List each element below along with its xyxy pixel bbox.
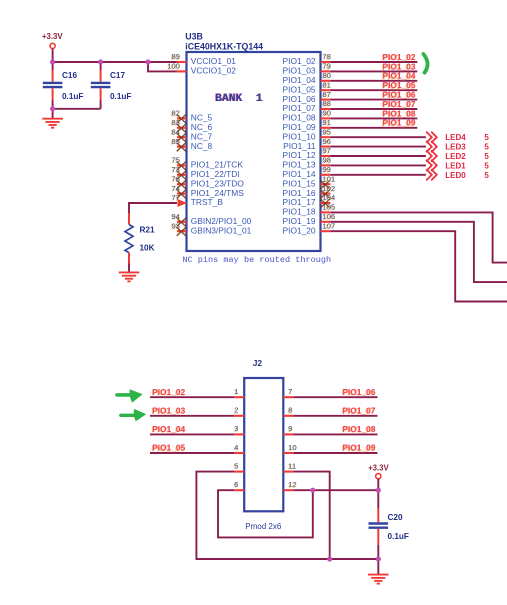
svg-text:3: 3: [234, 424, 238, 433]
ground (under C16): [42, 109, 63, 128]
svg-text:78: 78: [323, 52, 331, 61]
pin 91 PIO1_09: [283, 118, 331, 132]
svg-text:5: 5: [484, 171, 489, 180]
pin 98 PIO1_13: [283, 156, 331, 170]
pin 6 J2: [233, 480, 244, 490]
pin 89 VCCIO1_01: [171, 52, 237, 66]
svg-text:2: 2: [234, 406, 238, 415]
svg-text:8: 8: [288, 406, 292, 415]
svg-text:5: 5: [484, 143, 489, 152]
pin 9 J2: [283, 424, 293, 434]
svg-text:0.1uF: 0.1uF: [388, 532, 409, 541]
svg-text:87: 87: [323, 90, 331, 99]
pin 99 PIO1_14: [283, 165, 331, 179]
label BANK 1: [214, 93, 263, 105]
svg-text:74: 74: [172, 184, 180, 193]
wire TRST_B to R21: [129, 203, 177, 213]
svg-text:LED1: LED1: [445, 161, 466, 170]
pin 95 PIO1_10: [283, 127, 331, 141]
wire net PIO1_04 (J2 pin 3): [150, 433, 234, 435]
net label PIO1_02: [382, 52, 416, 63]
connector J2 body: [244, 378, 283, 511]
pin 85 NC_8: [171, 137, 213, 152]
svg-text:104: 104: [323, 193, 336, 202]
wire net PIO1_03 (J2 pin 2): [150, 415, 234, 417]
svg-text:PIO1_09: PIO1_09: [383, 118, 416, 128]
svg-text:101: 101: [323, 174, 336, 183]
svg-text:83: 83: [172, 118, 180, 127]
net label PIO1_07: [342, 405, 376, 416]
svg-text:80: 80: [323, 71, 331, 80]
wire net PIO1_08: [330, 117, 417, 119]
off-page connector LED3: [426, 141, 437, 152]
pin 101 PIO1_15: [283, 174, 336, 189]
net label PIO1_06: [342, 387, 376, 398]
svg-text:102: 102: [323, 184, 336, 193]
svg-text:VCCIO1_02: VCCIO1_02: [191, 66, 236, 76]
svg-text:5: 5: [234, 461, 238, 470]
svg-text:PIO1_07: PIO1_07: [342, 405, 375, 415]
pin 12 J2: [283, 480, 296, 490]
svg-text:85: 85: [172, 137, 180, 146]
wire to LED3: [330, 146, 426, 148]
svg-text:TRST_B: TRST_B: [191, 197, 224, 207]
pin 3 J2: [233, 424, 244, 434]
pin 83 NC_6: [171, 118, 213, 133]
net label PIO1_09: [382, 118, 416, 129]
net label PIO1_04: [151, 424, 185, 435]
wire to LED0: [330, 174, 426, 176]
svg-text:NC_8: NC_8: [191, 141, 213, 151]
svg-text:88: 88: [323, 99, 331, 108]
svg-text:iCE40HX1K-TQ144: iCE40HX1K-TQ144: [185, 41, 263, 51]
svg-text:LED0: LED0: [445, 171, 466, 180]
wire net PIO1_02: [330, 61, 417, 63]
net label LED3: [445, 143, 489, 152]
node junction C20 bottom: [376, 556, 381, 561]
net label LED1: [445, 161, 489, 170]
pin 7 J2: [283, 387, 293, 397]
wire net PIO1_09 (J2 pin 10): [293, 452, 377, 454]
pin 105 PIO1_18: [283, 203, 336, 217]
svg-text:+3.3V: +3.3V: [368, 463, 389, 472]
wire to LED2: [330, 155, 426, 157]
pin 104 PIO1_17: [283, 193, 336, 208]
wire net PIO1_06: [330, 99, 417, 101]
net label PIO1_09: [342, 443, 376, 454]
svg-text:C16: C16: [62, 71, 77, 80]
pin 106 PIO1_19: [283, 212, 336, 226]
capacitor C16: [43, 62, 84, 109]
pin 73 PIO1_22/TDI: [171, 165, 240, 180]
net label LED4: [445, 133, 489, 142]
pin 4 J2: [233, 443, 244, 453]
net label PIO1_08: [342, 424, 376, 435]
pin 76 PIO1_23/TDO: [171, 174, 245, 189]
pin 74 PIO1_24/TMS: [171, 184, 245, 199]
wire net PIO1_03: [330, 70, 417, 72]
capacitor C20: [369, 490, 409, 559]
svg-text:J2: J2: [253, 358, 263, 368]
off-page connector LED2: [426, 150, 437, 161]
svg-text:PIO1_08: PIO1_08: [342, 424, 375, 434]
wire J2 pin6 power loop: [218, 490, 313, 537]
wire to LED4: [330, 136, 426, 138]
wire PIO1_19 to edge: [330, 222, 507, 282]
svg-text:84: 84: [172, 127, 180, 136]
svg-text:C17: C17: [110, 71, 125, 80]
svg-text:94: 94: [172, 212, 180, 221]
svg-text:11: 11: [288, 461, 296, 470]
pin 90 PIO1_08: [283, 109, 331, 123]
net label PIO1_05: [382, 80, 416, 91]
pin 77 TRST_B: [171, 193, 224, 207]
net label PIO1_06: [382, 90, 416, 101]
svg-text:77: 77: [172, 193, 180, 202]
svg-text:93: 93: [172, 221, 180, 230]
pin 100 VCCIO1_02: [166, 62, 236, 76]
pin 96 PIO1_11: [283, 137, 331, 151]
svg-text:96: 96: [323, 137, 331, 146]
net label PIO1_02: [151, 387, 185, 398]
net label LED0: [445, 171, 489, 180]
wire J2 pin12 to +3.3V: [293, 489, 378, 491]
wire net PIO1_05: [330, 89, 417, 91]
svg-text:0.1uF: 0.1uF: [62, 92, 83, 101]
wire net PIO1_04: [330, 80, 417, 82]
svg-text:C20: C20: [388, 513, 403, 522]
pin 2 J2: [233, 406, 244, 416]
svg-text:BANK 1: BANK 1: [215, 93, 263, 105]
pin 1 J2: [233, 387, 244, 397]
wire net PIO1_06 (J2 pin 7): [293, 396, 377, 398]
svg-text:9: 9: [288, 424, 292, 433]
svg-text:Pmod 2x6: Pmod 2x6: [245, 522, 282, 531]
pin 84 NC_7: [171, 127, 213, 142]
svg-text:82: 82: [172, 109, 180, 118]
off-page connector LED1: [426, 160, 437, 171]
label iCE40HX1K-TQ144: [185, 41, 263, 51]
svg-text:10: 10: [288, 443, 296, 452]
annotation green arrow 2: [121, 409, 146, 421]
pin 5 J2: [233, 461, 244, 471]
pin 78 PIO1_02: [283, 52, 331, 66]
ground (under C20): [368, 559, 389, 584]
wire net PIO1_05 (J2 pin 4): [150, 452, 234, 454]
pin 8 J2: [283, 406, 293, 416]
svg-text:90: 90: [323, 109, 331, 118]
IC U3B body: [187, 52, 321, 251]
pin 80 PIO1_04: [283, 71, 331, 85]
pin 87 PIO1_06: [283, 90, 331, 104]
pin 11 J2: [283, 461, 296, 471]
svg-text:76: 76: [172, 174, 180, 183]
node junction rail-C16: [50, 59, 55, 64]
net label PIO1_03: [151, 405, 185, 416]
label U3B: [185, 31, 203, 41]
pin 97 PIO1_12: [283, 146, 331, 160]
pin 75 PIO1_21/TCK: [171, 156, 244, 171]
svg-text:81: 81: [323, 80, 331, 89]
resistor R21: [125, 213, 155, 272]
pin 81 PIO1_05: [283, 80, 331, 94]
pin 79 PIO1_03: [283, 62, 331, 76]
wire +3.3V rail to VCCIO1_01: [53, 61, 177, 63]
wire drop to VCCIO1_02: [148, 62, 177, 71]
svg-text:100: 100: [167, 62, 180, 71]
svg-text:79: 79: [323, 62, 331, 71]
svg-text:107: 107: [323, 221, 336, 230]
svg-text:4: 4: [234, 443, 238, 452]
net label PIO1_08: [382, 108, 416, 119]
annotation green parenthesis: [423, 54, 427, 73]
net label PIO1_03: [382, 61, 416, 72]
wire net PIO1_08 (J2 pin 9): [293, 433, 377, 435]
net label PIO1_07: [382, 99, 416, 110]
wire J2 pin5 ground loop: [196, 472, 378, 559]
pin 102 PIO1_16: [283, 184, 336, 199]
svg-text:10K: 10K: [140, 244, 155, 253]
pin 107 PIO1_20: [283, 221, 336, 235]
wire PIO1_18 to edge: [330, 212, 507, 262]
wire net PIO1_07 (J2 pin 8): [293, 415, 377, 417]
ground (under R21): [119, 272, 140, 281]
svg-text:75: 75: [172, 156, 180, 165]
svg-text:R21: R21: [140, 226, 155, 235]
capacitor C17: [91, 62, 132, 109]
svg-text:LED3: LED3: [445, 143, 466, 152]
node junction pin12-rail: [376, 488, 381, 493]
net label PIO1_04: [382, 71, 416, 82]
svg-text:73: 73: [172, 165, 180, 174]
svg-text:95: 95: [323, 127, 331, 136]
svg-text:PIO1_09: PIO1_09: [342, 443, 375, 453]
svg-text:U3B: U3B: [185, 31, 203, 41]
svg-text:1: 1: [234, 387, 238, 396]
annotation green arrow 1: [117, 389, 143, 402]
pin 88 PIO1_07: [283, 99, 331, 113]
svg-text:6: 6: [234, 480, 238, 489]
pin 93 GBIN3/PIO1_01: [171, 221, 252, 236]
svg-text:0.1uF: 0.1uF: [110, 92, 131, 101]
svg-text:PIO1_20: PIO1_20: [283, 225, 316, 235]
svg-text:7: 7: [288, 387, 292, 396]
svg-text:LED2: LED2: [445, 152, 466, 161]
pin 94 GBIN2/PIO1_00: [171, 212, 252, 227]
svg-text:LED4: LED4: [445, 133, 466, 142]
svg-text:5: 5: [484, 133, 489, 142]
node junction rail-VCCIO2 drop: [145, 59, 150, 64]
wire J2 pin11 drop: [293, 472, 329, 559]
wire net PIO1_02 (J2 pin 1): [150, 396, 234, 398]
label Pmod 2x6: [245, 522, 282, 531]
node junction C16 bottom: [50, 106, 55, 111]
svg-text:91: 91: [323, 118, 331, 127]
svg-text:PIO1_04: PIO1_04: [152, 424, 185, 434]
svg-text:5: 5: [484, 161, 489, 170]
note NC pins may be routed through: [182, 255, 331, 265]
wire to LED1: [330, 164, 426, 166]
power symbol +3.3V (J2): [368, 463, 389, 490]
svg-text:PIO1_06: PIO1_06: [342, 387, 375, 397]
node junction pin11-bottom: [327, 556, 332, 561]
svg-text:+3.3V: +3.3V: [42, 32, 63, 41]
svg-text:NC pins may be routed through: NC pins may be routed through: [182, 255, 331, 265]
off-page connector LED4: [426, 132, 437, 143]
svg-text:PIO1_02: PIO1_02: [152, 387, 185, 397]
svg-text:98: 98: [323, 156, 331, 165]
off-page connector LED0: [426, 169, 437, 180]
svg-text:PIO1_03: PIO1_03: [152, 405, 185, 415]
net label LED2: [445, 152, 489, 161]
svg-text:5: 5: [484, 152, 489, 161]
svg-text:99: 99: [323, 165, 331, 174]
svg-text:106: 106: [323, 212, 336, 221]
svg-text:GBIN3/PIO1_01: GBIN3/PIO1_01: [191, 225, 252, 235]
svg-text:97: 97: [323, 146, 331, 155]
svg-text:89: 89: [172, 52, 180, 61]
svg-text:12: 12: [288, 480, 296, 489]
pin 82 NC_5: [171, 109, 213, 124]
svg-text:105: 105: [323, 203, 336, 212]
wire net PIO1_07: [330, 108, 417, 110]
wire C16-C17 bottom: [53, 108, 101, 110]
net label PIO1_05: [151, 443, 185, 454]
wire PIO1_20 to edge: [330, 231, 507, 301]
label J2: [253, 358, 263, 368]
pin 10 J2: [283, 443, 296, 453]
node junction rail-C17: [98, 59, 103, 64]
node junction pin6-pin12: [310, 488, 315, 493]
wire net PIO1_09: [330, 127, 417, 129]
svg-text:PIO1_05: PIO1_05: [152, 443, 185, 453]
power symbol +3.3V (top left): [42, 32, 63, 62]
